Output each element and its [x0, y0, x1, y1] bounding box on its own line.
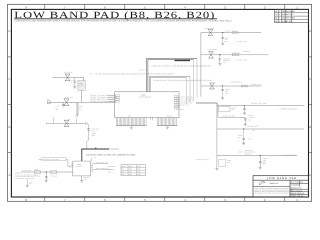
svg-text:RFFE MODE: RFFE MODE [108, 166, 116, 168]
svg-text:TP4502 LB_MID: TP4502 LB_MID [237, 59, 247, 61]
svg-text:Apple Inc.: Apple Inc. [270, 182, 280, 185]
svg-text:ESD: ESD [227, 162, 230, 164]
svg-text:L4511 10N: L4511 10N [92, 128, 99, 131]
svg-text:Z4501: Z4501 [79, 83, 83, 85]
svg-text:SEL TABLE: SEL TABLE [108, 169, 115, 171]
svg-text:A: A [8, 173, 10, 177]
svg-text:GND: GND [128, 116, 131, 118]
svg-text:LB_PAD_DET: LB_PAD_DET [248, 125, 259, 128]
svg-text:LB_PAD_RX_OUT_SAFIA_RX_IN_B8_B: LB_PAD_RX_OUT_SAFIA_RX_IN_B8_B26_B20_LOW… [154, 79, 213, 82]
svg-text:B2: B2 [275, 20, 277, 23]
svg-text:LB_PAD_ANT_IN_SAFIA_TX_OUT_B8_: LB_PAD_ANT_IN_SAFIA_TX_OUT_B8_B26_B20_LO… [151, 65, 212, 68]
svg-text:LB_PAD_ANT_C: LB_PAD_ANT_C [225, 30, 237, 33]
svg-text:C4536: C4536 [263, 158, 267, 160]
svg-text:0x0D: 0x0D [137, 174, 140, 176]
svg-text:1. ALL CAPS X5R UNLESS NOTED: 1. ALL CAPS X5R UNLESS NOTED [15, 174, 37, 176]
svg-text:0x1C: 0x1C [129, 174, 132, 176]
svg-text:LB_PAD_CPL_FWD: LB_PAD_CPL_FWD [251, 102, 267, 105]
svg-text:B8: B8 [122, 169, 124, 171]
svg-text:LDO 1V8: LDO 1V8 [76, 166, 82, 168]
svg-text:LB_PAD_MID: LB_PAD_MID [231, 52, 241, 55]
svg-text:A: A [309, 173, 311, 177]
svg-text:R4522 10K: R4522 10K [50, 175, 57, 177]
svg-text:2: 2 [279, 13, 280, 16]
svg-text:ANT_LB_M: ANT_LB_M [64, 71, 73, 74]
svg-text:R4506 0R: R4506 0R [139, 70, 145, 72]
svg-text:B: B [309, 125, 311, 129]
svg-text:PLACE C4510 WITHIN 2MM OF U450: PLACE C4510 WITHIN 2MM OF U4501 PIN A3 R… [96, 73, 175, 76]
svg-text:LOW BAND PAD: LOW BAND PAD [267, 177, 297, 180]
svg-text:TP12: TP12 [74, 116, 77, 118]
svg-text:U4502: U4502 [77, 163, 82, 166]
svg-text:1P8: 1P8 [56, 107, 59, 109]
svg-text:GND PAD: GND PAD [166, 116, 172, 118]
svg-text:C4503 DNI: C4503 DNI [223, 57, 231, 60]
svg-text:LB_PAD_PRX_C: LB_PAD_PRX_C [251, 84, 262, 86]
svg-text:B20: B20 [122, 174, 125, 176]
svg-text:DNI: DNI [263, 164, 266, 166]
svg-text:R0: R0 [253, 130, 255, 132]
svg-text:3. DNI FOR EVT BUILD ONLY: 3. DNI FOR EVT BUILD ONLY [15, 178, 34, 180]
svg-text:U4504: U4504 [79, 106, 83, 108]
svg-text:ANT_LB_D: ANT_LB_D [65, 96, 74, 99]
svg-text:ADDR: ADDR [129, 166, 133, 168]
svg-text:10P: 10P [231, 109, 234, 111]
svg-text:0201: 0201 [56, 109, 59, 111]
svg-text:PP1V8_MIPI: PP1V8_MIPI [22, 169, 31, 172]
svg-text:B: B [8, 125, 10, 129]
svg-text:FL4502 SAFIA: FL4502 SAFIA [208, 48, 218, 51]
svg-text:A2: A2 [275, 13, 277, 16]
svg-text:DATA: DATA [137, 166, 141, 168]
svg-text:TP4501 LB_ANT: TP4501 LB_ANT [237, 41, 248, 43]
svg-text:R4535 0R: R4535 0R [245, 153, 251, 155]
svg-text:DIPLX: DIPLX [79, 85, 83, 87]
svg-text:3: 3 [279, 17, 280, 20]
svg-text:C4502: C4502 [225, 38, 229, 40]
svg-text:LB_PAD_CPL_REV: LB_PAD_CPL_REV [222, 114, 235, 117]
svg-text:STATE: STATE [122, 166, 126, 168]
svg-text:R4521: R4521 [34, 169, 38, 171]
svg-text:J45: J45 [47, 99, 49, 101]
svg-text:10P 0201: 10P 0201 [248, 117, 254, 119]
svg-text:LB_PAD_TX_IN_B8_SAFIA_TX_LB1: LB_PAD_TX_IN_B8_SAFIA_TX_LB1 [90, 94, 116, 97]
svg-text:0402: 0402 [84, 179, 87, 181]
svg-text:0201: 0201 [248, 139, 251, 141]
svg-text:NOTE: NOTE [89, 74, 93, 76]
svg-text:ANT: ANT [79, 108, 82, 110]
svg-text:15P: 15P [225, 39, 228, 41]
svg-text:U4503: U4503 [227, 160, 231, 162]
svg-text:FL4501 SAFIA: FL4501 SAFIA [204, 27, 214, 30]
svg-text:15P: 15P [238, 137, 241, 139]
svg-text:0201: 0201 [225, 41, 228, 43]
svg-text:0201: 0201 [92, 130, 95, 132]
svg-text:NOTE 7: NOTE 7 [108, 172, 113, 174]
svg-text:0x1C: 0x1C [129, 169, 132, 171]
svg-text:L4505 5N6: L4505 5N6 [243, 51, 250, 53]
svg-text:LB_PAD_SNS_OUT: LB_PAD_SNS_OUT [281, 154, 295, 157]
svg-text:4.0: 4.0 [292, 10, 295, 13]
svg-text:0x0B: 0x0B [137, 171, 140, 173]
svg-text:RFFE_DET_EN_L: RFFE_DET_EN_L [197, 158, 210, 161]
svg-text:1: 1 [279, 10, 280, 13]
svg-text:TO SHEET 12 COUPLER: TO SHEET 12 COUPLER [279, 108, 298, 111]
svg-text:AUTHORIZED IN WRITING. 1 INFIN: AUTHORIZED IN WRITING. 1 INFINITE LOOP C… [254, 192, 293, 194]
svg-text:VOUT: VOUT [93, 157, 97, 159]
svg-text:DVT BLD: DVT BLD [286, 13, 294, 16]
svg-text:08: 08 [70, 82, 72, 84]
svg-text:MIPI_RFFE_CLK_DATA: MIPI_RFFE_CLK_DATA [43, 158, 61, 161]
svg-text:C45: C45 [70, 80, 73, 82]
svg-text:FL4503 SAFIA_LB: FL4503 SAFIA_LB [230, 80, 243, 83]
svg-text:CONFIDENTIAL AND PROPRIETARY A: CONFIDENTIAL AND PROPRIETARY APPLE SYSTE… [15, 19, 233, 22]
svg-text:SIZE FSCM DWG: SIZE FSCM DWG [291, 180, 304, 183]
svg-text:L4534 2N4: L4534 2N4 [245, 150, 252, 152]
svg-text:A3 2265901: A3 2265901 [291, 184, 300, 187]
svg-text:DNI: DNI [248, 120, 251, 122]
svg-text:RFFE_SDATA_1V8: RFFE_SDATA_1V8 [96, 168, 108, 170]
svg-text:2. PLACE NEAR U4502 PIN 1: 2. PLACE NEAR U4502 PIN 1 [15, 176, 34, 178]
svg-text:0201: 0201 [263, 162, 266, 164]
svg-text:0x07: 0x07 [137, 169, 140, 171]
svg-text:SHEET 4 OF 28: SHEET 4 OF 28 [291, 195, 303, 198]
svg-text:C4504: C4504 [225, 88, 230, 91]
svg-text:TP11: TP11 [51, 116, 54, 118]
svg-text:RFFE_SCLK_1V8: RFFE_SCLK_1V8 [96, 162, 108, 164]
svg-text:4.0: 4.0 [292, 17, 295, 20]
svg-text:C4509: C4509 [56, 106, 60, 108]
svg-text:NOTES:: NOTES: [15, 171, 21, 174]
svg-text:C4522 1U: C4522 1U [84, 177, 90, 179]
svg-text:R4512: R4512 [92, 132, 97, 135]
svg-text:4: 4 [279, 20, 280, 23]
svg-text:100R: 100R [92, 135, 95, 137]
svg-text:C4533: C4533 [238, 135, 242, 137]
svg-text:MP BLD: MP BLD [286, 20, 293, 23]
svg-text:U4501: U4501 [141, 93, 146, 96]
svg-text:DETAILED SHEET 4 SY301_RF LOWB: DETAILED SHEET 4 SY301_RF LOWBAND PAD MO… [86, 153, 136, 156]
svg-text:B1: B1 [275, 17, 277, 20]
svg-text:100N: 100N [263, 160, 266, 162]
svg-text:C4532: C4532 [248, 114, 253, 117]
svg-text:B26: B26 [122, 171, 125, 173]
svg-text:C4531: C4531 [231, 106, 236, 109]
svg-text:X5R: X5R [223, 62, 226, 64]
svg-text:0x1C: 0x1C [129, 171, 132, 173]
svg-text:A1: A1 [275, 10, 277, 13]
